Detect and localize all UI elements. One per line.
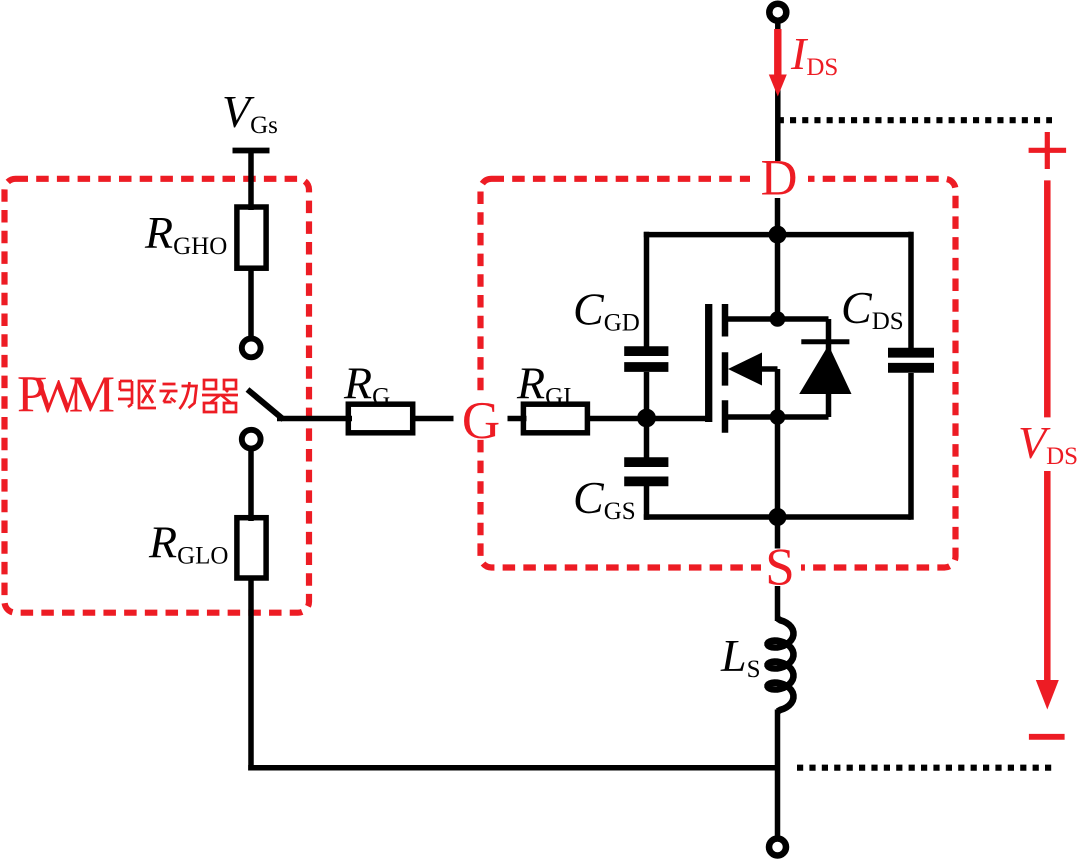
terminal switch lower contact [242, 430, 261, 449]
resistor R_GI [523, 404, 587, 433]
mosfet gate wire [649, 416, 709, 422]
mosfet drain wire [725, 316, 829, 322]
junction mosfet source [770, 409, 786, 425]
wire switch contact to R_GLO [248, 450, 254, 521]
capacitor C_DS [888, 348, 934, 358]
mosfet body wire [760, 366, 778, 372]
wire drain feed [775, 235, 781, 319]
capacitor C_GS [624, 457, 668, 467]
PWM driver dashed box [5, 179, 310, 613]
wire source feed [775, 417, 781, 517]
wire drain top [775, 20, 781, 161]
svg-text:D: D [761, 151, 798, 207]
wire node G to R_GI [508, 416, 527, 422]
mosfet source wire [725, 414, 829, 420]
wire left branch lower [644, 486, 650, 520]
junction gate node [637, 409, 656, 428]
plus terminal [1029, 148, 1067, 153]
current arrow I_DS [774, 29, 781, 78]
dotted link top [778, 117, 1052, 123]
wire source to inductor [775, 586, 781, 621]
wire left branch upper [644, 232, 650, 349]
wire R_GLO down [248, 578, 254, 771]
resistor R_G [348, 404, 412, 433]
wire switch to R_G [277, 416, 352, 422]
wire left branch middle [644, 372, 650, 460]
node D label patch [750, 157, 808, 201]
node S label patch [761, 544, 801, 590]
supply bar V_Gs [233, 148, 270, 154]
body diode triangle [799, 345, 851, 394]
junction source rail [769, 508, 787, 526]
switch arm [248, 390, 284, 420]
wire R_GHO to switch contact [248, 268, 254, 337]
mosfet channel top segment [722, 304, 729, 337]
svg-text:PWM: PWM [17, 367, 115, 424]
wire V_Gs to R_GHO [248, 151, 254, 211]
wire drain to rail [775, 198, 781, 237]
mosfet channel bottom segment [722, 400, 729, 432]
terminal source bottom [769, 839, 786, 856]
V_DS measure line lower [1044, 471, 1051, 684]
resistor R_GLO [237, 518, 266, 578]
wire R_G to node G [413, 416, 454, 422]
wire bottom rail [644, 514, 911, 520]
wire body to source [775, 369, 781, 417]
body diode wire [826, 319, 832, 417]
svg-text:S: S [765, 539, 794, 597]
body diode cathode bar [801, 339, 849, 344]
junction mosfet drain [770, 311, 786, 327]
minus terminal [1029, 734, 1065, 740]
label PWM driver text CJK [118, 380, 238, 412]
mosfet gate electrode [705, 304, 712, 422]
wire R_GI to gate junction [587, 416, 649, 422]
terminal switch upper contact [242, 339, 261, 358]
V_DS arrowhead [1036, 680, 1059, 710]
capacitor C_GD [624, 346, 668, 356]
mosfet channel mid segment [722, 352, 729, 385]
wire bottom return [248, 765, 777, 771]
dotted link bottom [797, 765, 1051, 771]
wire right branch upper [908, 232, 914, 350]
MOSFET model dashed box [481, 179, 956, 568]
wire top rail [644, 232, 911, 238]
wire inductor down [775, 710, 781, 841]
terminal drain top [769, 4, 786, 21]
mosfet body arrow [728, 353, 762, 386]
node G label patch [456, 393, 506, 439]
inductor L_S [768, 619, 794, 712]
svg-text:G: G [462, 392, 500, 450]
resistor R_GHO [237, 207, 266, 268]
wire right branch lower [908, 373, 914, 520]
junction drain rail [769, 226, 787, 244]
wire source below rail [775, 517, 781, 549]
V_DS measure line upper [1044, 180, 1051, 417]
